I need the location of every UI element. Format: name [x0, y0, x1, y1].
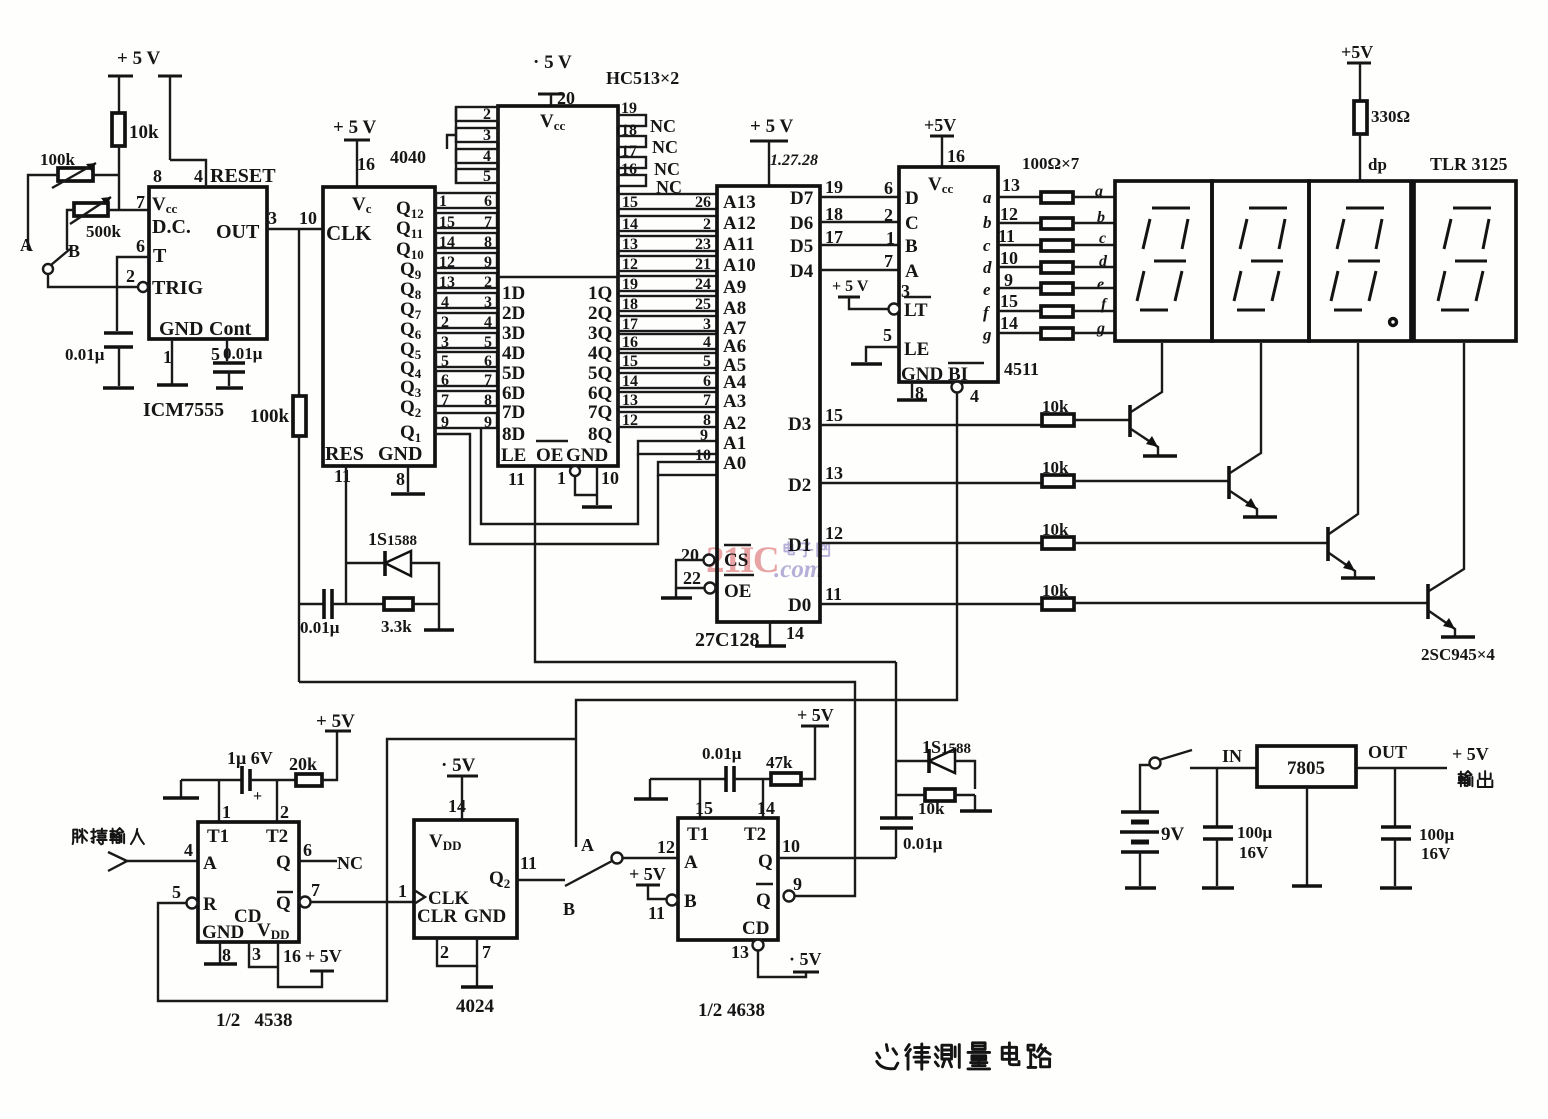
svg-text:1Q: 1Q: [588, 283, 612, 304]
svg-text:Q: Q: [756, 890, 771, 911]
svg-text:7: 7: [441, 392, 449, 409]
svg-text:GND: GND: [566, 445, 608, 466]
svg-text:8: 8: [484, 234, 492, 251]
pin 13 CD bubble to +5V: [731, 940, 822, 978]
NC stub pins 19-16: [618, 100, 682, 197]
svg-text:+ 5V: + 5V: [305, 946, 342, 966]
pin 9 Qbar bubble: [784, 874, 803, 902]
capacitor 100u 16V output: [1380, 768, 1455, 888]
svg-text:0.01μ: 0.01μ: [903, 834, 943, 853]
power +5V for 27C128 pins 1,27,28: [750, 116, 818, 186]
switch A/B (display mode): [563, 835, 678, 919]
svg-text:9V: 9V: [1161, 824, 1185, 845]
svg-text:7Q: 7Q: [588, 402, 612, 423]
wire T pin: [117, 257, 149, 331]
svg-text:8: 8: [222, 945, 231, 965]
svg-text:d: d: [1099, 253, 1108, 270]
svg-text:TRIG: TRIG: [152, 277, 204, 299]
power +5V rail top-left: [108, 48, 182, 160]
pin 8 GND wire + ground: [391, 466, 425, 494]
svg-text:3: 3: [703, 316, 711, 333]
svg-text:19: 19: [621, 100, 637, 117]
svg-text:3: 3: [484, 294, 492, 311]
transistor Q2 2SC945: [1229, 343, 1277, 517]
IC U3 HC513 latch pair: [498, 106, 618, 466]
svg-text:Q: Q: [276, 852, 291, 873]
power +5V for dp: [1341, 42, 1373, 101]
svg-text:100μ: 100μ: [1237, 823, 1273, 842]
IC U7 4024 counter: [414, 820, 517, 938]
power +5V for 20k: [316, 711, 355, 732]
svg-text:14: 14: [622, 373, 638, 390]
svg-text:5: 5: [703, 353, 711, 370]
svg-text:GND: GND: [901, 364, 943, 385]
svg-text:dp: dp: [1368, 155, 1387, 174]
svg-text:10: 10: [1000, 248, 1018, 268]
svg-text:+ 5 V: + 5 V: [750, 116, 793, 137]
svg-text:A11: A11: [723, 234, 755, 255]
ladder pin numbers HC513 side: [484, 193, 492, 431]
svg-text:19: 19: [825, 177, 843, 197]
svg-text:OE: OE: [536, 445, 563, 466]
svg-text:0.01μ: 0.01μ: [65, 345, 105, 364]
pin 7 Qbar bubble wire to 4024 CLK: [300, 880, 415, 908]
svg-text:+5V: +5V: [924, 115, 956, 135]
svg-text:16V: 16V: [1421, 844, 1451, 863]
svg-text:12: 12: [657, 837, 675, 857]
IC U4 27C128 EPROM: [717, 186, 820, 622]
svg-text:OUT: OUT: [216, 221, 260, 243]
svg-text:9: 9: [441, 414, 449, 431]
svg-text:15: 15: [825, 405, 843, 425]
svg-text:13: 13: [439, 274, 455, 291]
svg-text:10k: 10k: [918, 799, 945, 818]
wire net A1 (8D feed-around): [481, 427, 717, 524]
wire D2 row to 10k: [820, 463, 1042, 483]
svg-text:LE: LE: [501, 445, 526, 466]
svg-text:4024: 4024: [456, 996, 495, 1017]
svg-text:4511: 4511: [1004, 359, 1039, 379]
svg-text:CS: CS: [724, 550, 748, 571]
pin 10 Q wire to 0.01u cap: [778, 836, 896, 858]
svg-text:+5V: +5V: [1341, 42, 1373, 62]
wire D3 row to 10k: [820, 405, 1042, 425]
IC U9 7805 regulator: [1257, 746, 1356, 886]
svg-text:12: 12: [825, 523, 843, 543]
power +5V for B pin 11: [629, 864, 678, 923]
svg-text:2: 2: [703, 216, 711, 233]
wire net A0 (Q1 feed-around): [435, 434, 717, 544]
capacitor 100u 16V input: [1202, 768, 1273, 888]
resistor 10k digit2: [1042, 458, 1228, 487]
svg-text:10k: 10k: [129, 122, 159, 143]
wire net OUT divider down: [298, 436, 300, 682]
svg-text:D4: D4: [790, 261, 814, 282]
svg-text:2: 2: [483, 106, 491, 123]
resistor bank a-g 100ohm wires and bodies: [998, 175, 1115, 203]
pin 20 CS bubble + pin 22 OE bubble bracket to ground: [661, 545, 716, 598]
svg-text:1: 1: [439, 193, 447, 210]
pin 11 Q2 wire: [517, 853, 565, 880]
svg-text:11: 11: [520, 853, 537, 873]
pin 5 wire + capacitor 0.01u (control): [211, 339, 263, 388]
svg-text:100k: 100k: [40, 150, 76, 169]
svg-text:100k: 100k: [250, 406, 290, 427]
pin 8 / pin 4 RESET bracket: [153, 160, 276, 187]
svg-text:e: e: [983, 280, 991, 299]
svg-text:0.01μ: 0.01μ: [702, 744, 742, 763]
svg-text:1D: 1D: [502, 283, 525, 304]
upper D stubs pins 2-5 with bracket: [447, 106, 498, 185]
svg-text:2Q: 2Q: [588, 303, 612, 324]
wire D0 row to 10k: [820, 584, 1042, 604]
svg-text:2: 2: [440, 942, 449, 962]
svg-text:16V: 16V: [1239, 843, 1269, 862]
svg-text:15: 15: [1000, 291, 1018, 311]
wire net feedback branch to 4538-1 R: [158, 739, 576, 1001]
svg-text:+ 5V: + 5V: [316, 711, 355, 732]
svg-text:11: 11: [648, 903, 665, 923]
svg-text:+ 5V: + 5V: [1452, 744, 1489, 764]
svg-text:NC: NC: [654, 159, 680, 179]
svg-text:T: T: [153, 245, 167, 267]
svg-text:8: 8: [484, 392, 492, 409]
wire net OUT-divider bus to Qbar (4538-2): [299, 682, 855, 896]
svg-text:12: 12: [439, 254, 455, 271]
svg-text:4: 4: [184, 840, 193, 860]
svg-text:3: 3: [441, 334, 449, 351]
ladder HC513 Q outputs to 27C128 address pins: [618, 194, 717, 427]
svg-text:7D: 7D: [502, 402, 525, 423]
svg-text:+ 5V: + 5V: [797, 705, 834, 725]
svg-text:10: 10: [695, 447, 711, 464]
svg-text:4: 4: [194, 166, 203, 186]
power switch (battery): [1140, 750, 1192, 812]
svg-text:7: 7: [482, 942, 491, 962]
svg-text:16: 16: [357, 154, 375, 174]
svg-text:2: 2: [126, 266, 135, 286]
resistor 10k: [112, 113, 159, 210]
input chevron: [108, 852, 127, 871]
svg-text:24: 24: [695, 276, 711, 293]
svg-text:3Q: 3Q: [588, 323, 612, 344]
resistor 3.3k: [381, 598, 439, 636]
switch A/B selector: [20, 235, 138, 287]
resistor 10k digit1: [1042, 397, 1129, 426]
svg-text:6: 6: [441, 372, 449, 389]
wire D1 row to 10k: [820, 523, 1042, 543]
svg-text:+ 5 V: + 5 V: [832, 278, 869, 295]
potentiometer 100k: [28, 150, 119, 250]
svg-text:16: 16: [622, 334, 638, 351]
wire switch to 7805 IN: [1190, 746, 1257, 768]
label 27C128 + pin 14 ground: [695, 622, 804, 651]
svg-text:6: 6: [136, 236, 145, 256]
svg-text:3D: 3D: [502, 323, 525, 344]
svg-text:A2: A2: [723, 413, 746, 434]
svg-text:RES: RES: [325, 443, 364, 465]
svg-text:6: 6: [484, 353, 492, 370]
transistor Q1 2SC945: [1130, 343, 1177, 456]
svg-text:+ 5 V: + 5 V: [117, 48, 160, 69]
svg-text:9: 9: [484, 414, 492, 431]
svg-text:14: 14: [757, 798, 775, 818]
display DS3 with dp: [1309, 181, 1411, 341]
svg-text:1/2 4638: 1/2 4638: [698, 1000, 765, 1021]
svg-text:e: e: [1097, 276, 1104, 293]
svg-text:Cont: Cont: [209, 318, 252, 340]
pin 2 TRIG bubble: [126, 266, 148, 292]
svg-text:D7: D7: [790, 188, 814, 209]
svg-text:D2: D2: [788, 475, 811, 496]
battery 9V: [1120, 812, 1185, 888]
svg-text:IN: IN: [1222, 746, 1242, 766]
svg-text:4Q: 4Q: [588, 343, 612, 364]
transistor Q4 2SC945: [1428, 343, 1475, 637]
svg-text:OUT: OUT: [1368, 742, 1407, 762]
svg-text:4: 4: [970, 386, 979, 406]
svg-text:3: 3: [901, 281, 910, 301]
svg-text:13: 13: [731, 942, 749, 962]
watermark 21IC.com: [706, 540, 829, 583]
svg-text:D5: D5: [790, 236, 813, 257]
capacitor C 1u 6V electrolytic: [181, 748, 296, 805]
svg-text:11: 11: [825, 584, 842, 604]
pin 3 / pin 16 +5V: [249, 942, 342, 987]
svg-text:D6: D6: [790, 213, 813, 234]
ladder Q outputs 4040 to HC513 D pins: [436, 193, 497, 428]
svg-text:LE: LE: [904, 339, 929, 360]
svg-text:A4: A4: [723, 372, 747, 393]
svg-text:9: 9: [1004, 270, 1013, 290]
resistor 330ohm dp: [1354, 101, 1410, 181]
svg-text:RESET: RESET: [210, 165, 276, 187]
svg-text:12: 12: [1000, 204, 1018, 224]
svg-text:3: 3: [483, 127, 491, 144]
wire OUT pin3 to 4040 CLK pin10: [267, 208, 323, 229]
svg-text:5: 5: [211, 344, 220, 364]
svg-text:CLR: CLR: [417, 906, 457, 927]
svg-text:15: 15: [622, 353, 638, 370]
pin 11 LE wire down (bus to bottom): [508, 466, 896, 662]
svg-text:1.27.28: 1.27.28: [770, 152, 818, 169]
pin 1 wire + ground: [157, 339, 188, 385]
svg-text:D: D: [905, 188, 919, 209]
diode D1 1S1588: [346, 529, 439, 604]
svg-text:5Q: 5Q: [588, 363, 612, 384]
svg-text:A: A: [684, 852, 698, 873]
svg-text:.com: .com: [774, 556, 823, 583]
svg-text:2: 2: [884, 205, 893, 225]
svg-text:· 5V: · 5V: [441, 755, 476, 776]
svg-text:13: 13: [622, 236, 638, 253]
svg-text:6: 6: [303, 840, 312, 860]
svg-text:A1: A1: [723, 433, 746, 454]
svg-text:11: 11: [508, 469, 525, 489]
pin 6 Q wire NC: [299, 840, 363, 873]
display DS2: [1212, 181, 1309, 341]
svg-text:9: 9: [700, 427, 708, 444]
svg-text:HC513×2: HC513×2: [606, 68, 679, 88]
svg-text:A8: A8: [723, 298, 746, 319]
svg-text:5: 5: [172, 882, 181, 902]
transistor Q3 2SC945: [1328, 343, 1375, 578]
svg-text:2SC945×4: 2SC945×4: [1421, 645, 1495, 664]
svg-text:C: C: [905, 213, 919, 234]
svg-text:47k: 47k: [766, 753, 793, 772]
svg-text:18: 18: [622, 296, 638, 313]
svg-text:14: 14: [786, 623, 804, 643]
svg-text:3: 3: [268, 208, 277, 228]
svg-text:4: 4: [484, 314, 492, 331]
svg-text:2: 2: [441, 314, 449, 331]
svg-text:D1: D1: [788, 535, 811, 556]
svg-text:15: 15: [439, 214, 455, 231]
svg-text:20k: 20k: [289, 754, 317, 774]
svg-text:A0: A0: [723, 453, 746, 474]
svg-text:7: 7: [136, 192, 145, 212]
resistor 100k pulldown: [250, 229, 306, 436]
svg-text:7: 7: [484, 372, 492, 389]
svg-text:100μ: 100μ: [1419, 825, 1455, 844]
diode D2 1S1588: [896, 737, 975, 789]
svg-text:A: A: [581, 835, 594, 855]
svg-text:b: b: [983, 213, 992, 232]
wire pins 1,2 risers 4538-1: [219, 780, 289, 822]
svg-text:CLK: CLK: [326, 221, 372, 245]
svg-text:19: 19: [622, 276, 638, 293]
svg-text:GND: GND: [159, 318, 203, 340]
svg-text:c: c: [1099, 230, 1106, 247]
svg-text:0.01μ: 0.01μ: [300, 618, 340, 637]
IC U1 ICM7555: [149, 187, 267, 340]
svg-text:7805: 7805: [1287, 758, 1325, 779]
svg-text:T1: T1: [207, 826, 229, 847]
svg-text:NC: NC: [650, 116, 676, 136]
svg-text:T2: T2: [744, 824, 766, 845]
power +5V for 4040: [333, 117, 376, 187]
ladder pin numbers 27C128 side: [695, 194, 711, 429]
power +5V mini for LT pin 3: [832, 278, 910, 315]
pin 5 R bubble: [172, 882, 198, 909]
svg-text:g: g: [982, 325, 992, 344]
svg-text:B: B: [68, 241, 80, 261]
svg-text:a: a: [983, 188, 992, 207]
svg-text:NC: NC: [337, 853, 363, 873]
capacitor 0.01u (4538-2 timing): [650, 744, 771, 792]
capacitor 0.01u (RES net): [299, 589, 384, 637]
IC U5 4511 decoder: [899, 167, 998, 385]
svg-text:500k: 500k: [86, 222, 122, 241]
ground (diode/10k): [960, 795, 992, 811]
svg-text:g: g: [1096, 320, 1105, 337]
svg-text:5D: 5D: [502, 363, 525, 384]
capacitor 0.01u timing: [65, 333, 133, 386]
svg-text:6D: 6D: [502, 383, 525, 404]
wire input to A pin4: [124, 840, 198, 861]
svg-text:CD: CD: [742, 918, 769, 939]
svg-text:17: 17: [621, 143, 637, 160]
svg-text:15: 15: [622, 194, 638, 211]
svg-text:11: 11: [998, 226, 1015, 246]
svg-text:10: 10: [782, 836, 800, 856]
svg-text:5: 5: [483, 168, 491, 185]
svg-text:7: 7: [703, 392, 711, 409]
svg-text:GND: GND: [464, 906, 506, 927]
svg-text:2D: 2D: [502, 303, 525, 324]
svg-text:6Q: 6Q: [588, 383, 612, 404]
svg-text:6: 6: [884, 178, 893, 198]
svg-text:A13: A13: [723, 192, 756, 213]
svg-text:5: 5: [441, 353, 449, 370]
svg-text:18: 18: [825, 204, 843, 224]
pins 2,7 bracket to ground: [437, 938, 493, 987]
ground (timing cap): [103, 386, 134, 390]
svg-text:B: B: [563, 899, 575, 919]
resistor 10k (discharge): [896, 789, 975, 818]
svg-text:7: 7: [884, 251, 893, 271]
svg-text:LT: LT: [904, 300, 928, 321]
pin 4 BI bubble: [952, 382, 980, 407]
svg-text:A9: A9: [723, 277, 746, 298]
svg-text:4: 4: [483, 148, 491, 165]
svg-text:· 5V: · 5V: [789, 949, 822, 969]
svg-text:9: 9: [484, 254, 492, 271]
wire D6 to 4511 C: [820, 204, 899, 225]
svg-text:13: 13: [1002, 175, 1020, 195]
display DS1: [1115, 181, 1212, 341]
svg-text:5: 5: [883, 325, 892, 345]
svg-text:17: 17: [825, 227, 843, 247]
svg-text:+ 5 V: + 5 V: [333, 117, 376, 138]
svg-text:15: 15: [695, 798, 713, 818]
svg-text:12: 12: [622, 412, 638, 429]
svg-text:A10: A10: [723, 255, 756, 276]
svg-text:8Q: 8Q: [588, 424, 612, 445]
wire D7 to 4511 D: [820, 177, 899, 198]
resistor 47k: [766, 726, 815, 785]
pin 1 OE bubble + ground with pin 10 GND: [557, 466, 619, 507]
potentiometer 500k: [67, 197, 149, 250]
svg-text:12: 12: [622, 256, 638, 273]
power +5V for 4024: [441, 755, 478, 820]
svg-text:21: 21: [695, 256, 711, 273]
svg-text:330Ω: 330Ω: [1371, 107, 1410, 126]
wire pins 15,14 risers 4538-2: [695, 779, 775, 818]
node +5V output: [1452, 744, 1492, 787]
svg-text:A: A: [203, 853, 217, 874]
svg-text:2: 2: [280, 802, 289, 822]
svg-text:27C128: 27C128: [695, 629, 759, 651]
svg-text:TLR 3125: TLR 3125: [1430, 154, 1508, 174]
power +5V for 47k: [797, 705, 834, 726]
svg-text:17: 17: [622, 316, 638, 333]
ladder pin numbers 4040 side: [439, 193, 455, 431]
ground (4538-2 cap): [634, 779, 668, 799]
power +5V for 4511: [924, 115, 965, 167]
svg-text:A3: A3: [723, 391, 746, 412]
svg-text:16: 16: [947, 146, 965, 166]
pin 8 GND wire + ground: [897, 382, 927, 403]
svg-text:NC: NC: [652, 137, 678, 157]
svg-text:B: B: [905, 236, 918, 257]
svg-text:7: 7: [311, 880, 320, 900]
svg-text:1: 1: [886, 228, 895, 248]
svg-text:3.3k: 3.3k: [381, 617, 412, 636]
svg-text:d: d: [983, 258, 992, 277]
svg-text:20: 20: [681, 545, 699, 565]
svg-text:18: 18: [621, 122, 637, 139]
